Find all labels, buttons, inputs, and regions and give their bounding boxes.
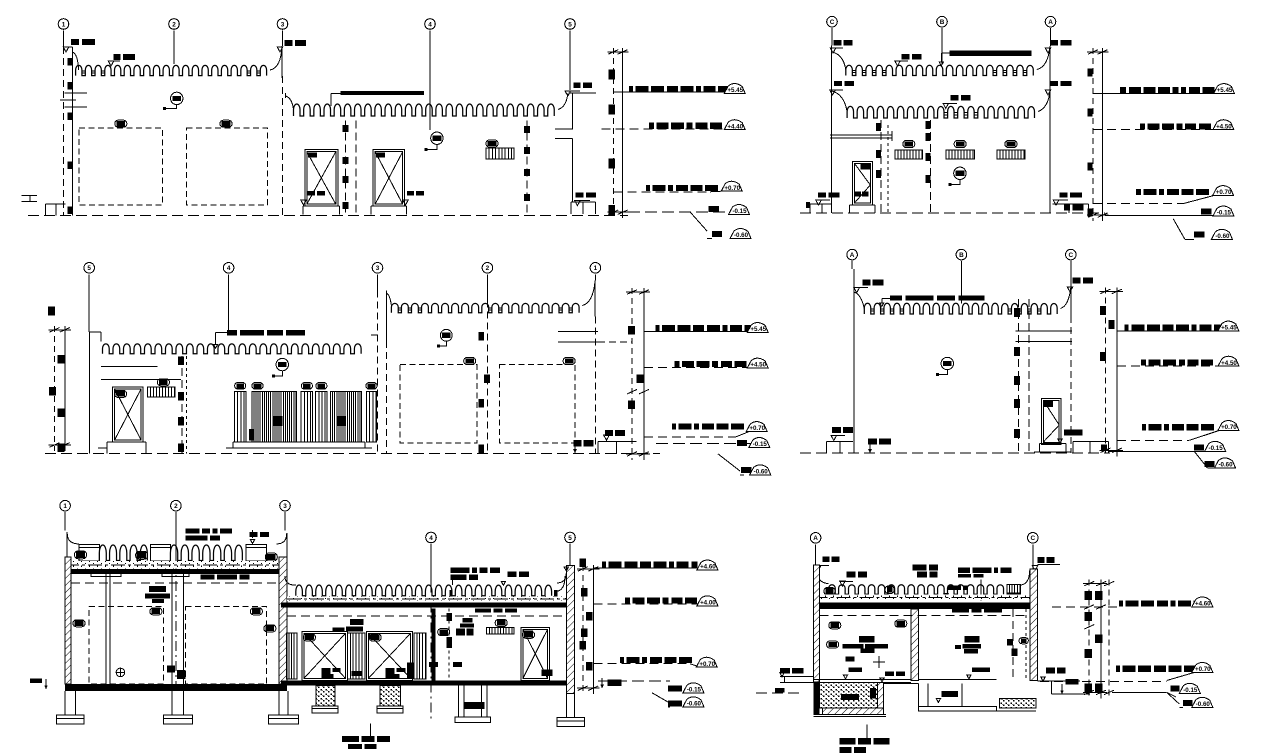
top flag A (854, 288, 860, 293)
beam drop 1 (91, 574, 121, 577)
door F1 sill (1040, 443, 1067, 445)
level tag +0.70 (1218, 421, 1239, 431)
level tag +4.50 (1213, 120, 1234, 130)
svg-text:3: 3 (281, 21, 285, 28)
level tag +4.50 (1218, 356, 1239, 366)
parapet crenellation tall (391, 303, 579, 312)
pool right wall (878, 683, 884, 708)
level line -0.15 (598, 680, 670, 682)
parapet crenellation (864, 303, 1057, 314)
ground line (800, 212, 1105, 214)
ground line (45, 453, 660, 455)
grid 1 leader (594, 274, 596, 280)
level tag +0.70 (696, 657, 717, 667)
level tag +4.00 (697, 596, 718, 606)
svg-text:+0.70: +0.70 (1216, 189, 1232, 196)
crenellation pills (824, 587, 835, 595)
gate panel tag (252, 383, 263, 390)
level tag +4.60 (1192, 597, 1213, 607)
level line +4.60 (1052, 606, 1118, 608)
hatch strip 1 (286, 633, 297, 679)
wing string line 2 (555, 138, 572, 140)
interior wall (181, 356, 183, 454)
right wall dash lines (1012, 609, 1014, 680)
grid line 4 leader (429, 31, 431, 131)
opening dashed rect 2 (187, 128, 268, 205)
grid bubble 4 (425, 19, 436, 30)
svg-text:+5.45: +5.45 (727, 87, 743, 94)
level line +4.50 (1117, 365, 1219, 367)
vent tag pill (486, 140, 498, 147)
opening pill 2 (563, 358, 575, 365)
left step flag (816, 200, 822, 205)
wall joint lines (345, 121, 347, 215)
level tag +0.70 (721, 181, 742, 191)
ground text (868, 439, 877, 445)
level leader -0.60 (690, 212, 707, 231)
door D2 sill (371, 205, 407, 207)
mid parapet left corner (285, 576, 296, 585)
tall wall right corner (582, 281, 595, 306)
mid footing 1 (316, 686, 335, 706)
annotation flag B (895, 61, 901, 66)
svg-text:-0.15: -0.15 (1209, 445, 1224, 452)
roof bar hook (941, 52, 949, 54)
mid texture band (287, 597, 571, 602)
floor slab (65, 684, 287, 691)
svg-text:1: 1 (63, 503, 67, 510)
level line +5.45 (1093, 93, 1214, 95)
annotation c (958, 568, 970, 574)
parapet joint marks (449, 590, 452, 598)
svg-text:-0.15: -0.15 (732, 208, 747, 215)
platform text (605, 430, 613, 436)
level text top-left (71, 39, 79, 45)
left datum column (54, 326, 56, 451)
window hatch (147, 387, 175, 397)
left step text (818, 192, 826, 197)
symbol circle-cross (116, 668, 125, 677)
left step (810, 203, 832, 205)
left wall below floor (814, 683, 820, 714)
level tag +5.45 (724, 84, 745, 94)
grid line 1 (63, 31, 65, 48)
right step (1037, 680, 1080, 682)
strip smudge (351, 671, 362, 676)
level line +4.40 (602, 128, 725, 130)
pool blob (870, 688, 876, 699)
level line +5.45 (613, 91, 745, 93)
right wall footing (565, 694, 567, 718)
step interior vert (961, 683, 963, 706)
window W2 hatch (946, 150, 975, 159)
grid line C leader (831, 28, 833, 45)
wall right edge (1049, 46, 1051, 213)
level tag -0.60 (1211, 229, 1232, 239)
text cluster b (463, 618, 473, 623)
mid footing 2 (380, 686, 400, 706)
roof bar hook (882, 297, 890, 299)
svg-text:B: B (940, 19, 945, 26)
hatch strip 3 (414, 633, 426, 679)
level line +4.50 (1093, 129, 1214, 131)
level leader -0.60 (1173, 219, 1185, 239)
level tag +4.60 (697, 560, 718, 570)
level line +4.00 (593, 603, 698, 605)
texture band roof (65, 561, 287, 568)
footing 1 (64, 691, 66, 715)
text bar grid4 (227, 330, 237, 336)
level leader -0.60 (718, 454, 740, 471)
grid bubble 1 (590, 263, 601, 274)
svg-text:4: 4 (227, 265, 231, 272)
tall wall right edge (594, 281, 596, 317)
far left text (780, 668, 790, 674)
level text wall B right (573, 83, 580, 89)
far left kerb (21, 195, 36, 197)
text cluster a (350, 619, 364, 625)
mid wall column (432, 609, 436, 684)
window tag (157, 379, 169, 386)
parapet2 right corner arc (1038, 91, 1050, 112)
parapet1 left corner arc (832, 52, 846, 70)
left wall corner arc (67, 533, 79, 544)
annotation B (902, 54, 910, 59)
grid bubble 1 (60, 500, 71, 511)
svg-text:5: 5 (568, 535, 572, 542)
roof slab (65, 569, 287, 574)
svg-text:3: 3 (283, 503, 287, 510)
svg-text:-0.60: -0.60 (1196, 701, 1211, 708)
grid bubble A (1045, 16, 1056, 27)
section marker circle 2 (431, 132, 443, 144)
mid ceiling dash (287, 615, 570, 617)
wall left edge (831, 45, 833, 213)
svg-text:+4.50: +4.50 (1216, 123, 1232, 130)
level tag -0.60 (730, 229, 751, 239)
level line +5.45 (1117, 330, 1219, 332)
right wall (1030, 569, 1038, 680)
room pills (150, 608, 162, 615)
interior horizontals (1016, 330, 1072, 332)
door D2 (373, 150, 405, 207)
grid A leader (851, 261, 853, 269)
level tag -0.15 (683, 683, 704, 693)
right platform (598, 441, 636, 443)
datum text left (30, 679, 42, 684)
svg-text:5: 5 (87, 265, 91, 272)
interior column 1 (105, 574, 107, 685)
annotation a (846, 571, 855, 577)
grid line mid wing (526, 121, 528, 215)
svg-text:+0.70: +0.70 (1195, 666, 1211, 673)
roof bar (949, 51, 1031, 56)
roof text (185, 529, 199, 534)
return wall lines (558, 330, 598, 332)
grid 3 leader (284, 512, 286, 530)
right step blobs (1064, 205, 1070, 211)
grid bubble 4 (223, 263, 234, 274)
svg-text:+5.45: +5.45 (750, 326, 766, 333)
svg-text:1: 1 (62, 21, 66, 28)
interior text cluster (149, 586, 166, 592)
datum blobs (609, 69, 616, 79)
grid bubble C (827, 16, 838, 27)
mid parapet right corner (555, 576, 565, 592)
right kerb (1073, 441, 1109, 443)
under slab text (475, 608, 491, 612)
stipple strip right (999, 699, 1036, 708)
mid right corner arc (557, 573, 566, 583)
ground line (800, 452, 1110, 454)
grid line B leader (941, 28, 943, 64)
grid bubble A (810, 533, 821, 544)
top flag C (1032, 566, 1038, 571)
pool bottom line (814, 713, 887, 715)
svg-text:-0.60: -0.60 (1215, 233, 1230, 240)
right corner arc (1021, 570, 1030, 585)
svg-text:+4.40: +4.40 (727, 123, 743, 130)
grid 2 leader (486, 274, 488, 300)
door sill (849, 204, 875, 206)
parapet crenellation seg1 (99, 545, 147, 561)
top text C (1073, 277, 1081, 283)
grid bubble 2 (169, 19, 180, 30)
parapet2 left corner arc (832, 91, 847, 112)
door blobs (860, 164, 871, 169)
parapet pills (75, 551, 87, 559)
svg-text:+4.00: +4.00 (700, 599, 716, 606)
door D1 (305, 150, 338, 207)
parapet right corner (1061, 288, 1071, 309)
right step (1053, 203, 1089, 205)
level leader -0.60 (1167, 692, 1180, 704)
level tag -0.60 (683, 697, 704, 707)
gate post 3 (316, 391, 328, 442)
level flag wall B right (565, 91, 571, 96)
level tag -0.15 (729, 205, 750, 215)
level flag top C (830, 48, 836, 53)
svg-text:C: C (830, 19, 835, 26)
svg-text:+4.60: +4.60 (700, 564, 716, 571)
grid 4 leader (430, 544, 432, 583)
far left step (780, 676, 814, 678)
parapet crenellation seg2 (170, 545, 242, 561)
datum column (1092, 48, 1094, 221)
wing string line 1 (555, 128, 573, 130)
top text A (862, 280, 870, 286)
right step text (1046, 668, 1055, 674)
level tag +5.45 (1214, 84, 1235, 94)
section marker circle (171, 92, 183, 104)
grid line 4b (448, 609, 450, 684)
grid C leader (1032, 544, 1034, 569)
interior column 2 (171, 574, 173, 685)
level line +0.70 (1093, 203, 1183, 205)
parapet1 right corner arc (1037, 46, 1050, 70)
title text (369, 724, 371, 736)
grid 4 leader (228, 274, 230, 330)
right parapet post (1007, 585, 1021, 601)
svg-text:2: 2 (486, 265, 490, 272)
svg-text:-0.15: -0.15 (687, 686, 702, 693)
wall 3 post (281, 46, 283, 78)
parapet post right (246, 545, 267, 562)
wall A left edge (71, 47, 73, 216)
parapet crenellation lower (847, 106, 1034, 118)
grid 2 blobs (478, 332, 484, 341)
top text C (1037, 557, 1044, 563)
level flag grid3 (277, 47, 283, 52)
left room cross (873, 661, 885, 663)
ground text (574, 440, 582, 447)
pool stipple (820, 683, 878, 708)
ceiling dash (820, 615, 1030, 617)
level tag -0.15 (1179, 683, 1200, 693)
window W1 tag (903, 141, 915, 148)
svg-text:-0.60: -0.60 (1218, 462, 1233, 469)
svg-text:-0.15: -0.15 (1217, 210, 1232, 217)
tall wall left corner (387, 293, 392, 306)
interior grid a (880, 120, 882, 213)
level line +0.70 (593, 663, 690, 665)
grid 5 leader (88, 274, 90, 332)
wall A left edge blobs (68, 58, 74, 66)
opening pill 1 (464, 358, 476, 365)
annotation b (913, 565, 927, 571)
opening rect 1 (400, 365, 477, 443)
rail lines (830, 134, 892, 136)
roof slab (814, 603, 1038, 609)
wing platform (571, 201, 595, 203)
door F1 (1041, 399, 1061, 445)
level line -0.15 (628, 211, 731, 213)
roof beam leader (331, 93, 341, 95)
level flag top-left (63, 47, 69, 52)
door G1 (302, 631, 347, 680)
svg-text:+0.70: +0.70 (749, 425, 765, 432)
window W3 hatch (997, 150, 1025, 159)
left step text (832, 427, 841, 433)
door G3 (521, 627, 550, 680)
section marker 2 (440, 329, 452, 341)
level2 flag C (830, 90, 836, 95)
datum column (582, 565, 584, 694)
level line +0.70 (1117, 439, 1189, 441)
section marker (941, 357, 953, 369)
wing platform text (576, 192, 584, 197)
gate sill (233, 441, 365, 443)
svg-text:C: C (1030, 535, 1035, 542)
svg-text:3: 3 (376, 265, 380, 272)
under slab text (952, 607, 969, 613)
wing wall upper (571, 93, 573, 129)
grid 1 leader (64, 512, 66, 530)
vent hatch (486, 148, 514, 159)
svg-text:+5.45: +5.45 (1221, 325, 1237, 332)
parapet crenellation wall A (76, 65, 267, 75)
ground line (28, 215, 628, 217)
grid bubble 3 (372, 263, 383, 274)
door left (852, 161, 872, 205)
gate panel 2 (331, 391, 362, 442)
room 2 dashed (185, 606, 266, 684)
datum column (1104, 287, 1106, 456)
svg-text:-0.60: -0.60 (754, 468, 769, 475)
right room small (955, 645, 961, 649)
level text parapet2 (114, 54, 121, 60)
roof bar (890, 296, 902, 301)
level tag -0.15 (1205, 441, 1226, 451)
gate post 2 (301, 391, 313, 442)
level tag +0.70 (1192, 662, 1213, 672)
svg-text:C: C (1068, 252, 1073, 259)
string course lines (65, 92, 88, 94)
gate post 4 (366, 391, 376, 442)
left room text (859, 636, 874, 642)
right room pill (438, 629, 450, 636)
door D2 annotation (407, 191, 414, 196)
grid 2 leader (175, 512, 177, 561)
svg-text:A: A (850, 252, 855, 259)
gate post 1 (234, 391, 246, 442)
top flag C (1067, 287, 1073, 292)
left room pills (829, 622, 841, 629)
level line -0.15 (1108, 450, 1206, 452)
right step flag (1053, 200, 1059, 205)
grid bubble 3 (280, 500, 291, 511)
grid bubble 2 (171, 500, 182, 511)
svg-text:+4.50: +4.50 (750, 362, 766, 369)
level flag parapet2 (108, 61, 114, 66)
svg-text:+0.70: +0.70 (699, 661, 715, 668)
parapet post left (79, 545, 99, 562)
grid bubble B (937, 16, 948, 27)
datum column (612, 48, 614, 218)
right datum column (631, 288, 633, 460)
level tag -0.60 (1215, 458, 1236, 468)
door F1 blobs (1043, 401, 1053, 407)
right step text2 (1065, 679, 1078, 684)
level tag -0.60 (750, 465, 771, 475)
wall left edge (853, 269, 855, 453)
right wall (279, 557, 287, 684)
annotation mid (951, 95, 959, 100)
level text top A (1050, 40, 1058, 46)
pool bottom (823, 708, 884, 715)
opening dashed rect 1 (79, 128, 163, 205)
right step text (1059, 192, 1067, 197)
opening tag pill 1 (115, 120, 127, 127)
level line +4.50 (644, 366, 751, 368)
grid line 3 (282, 31, 284, 47)
grid line 5 leader (569, 31, 571, 91)
parapet crenellation wall B (294, 104, 555, 116)
door G2 (366, 631, 412, 680)
left step (827, 441, 853, 443)
parapet crenellation low (103, 344, 362, 354)
grid line 2 leader (173, 31, 175, 65)
grid 5 leader (569, 544, 571, 565)
interior line c (887, 125, 889, 213)
svg-text:4: 4 (429, 535, 433, 542)
level tag +4.50 (747, 358, 768, 368)
wall post left (88, 332, 90, 454)
wall B right corner arc (558, 93, 568, 109)
footing 2 (171, 691, 173, 715)
svg-text:2: 2 (172, 21, 176, 28)
parapet left corner arc (72, 52, 78, 70)
